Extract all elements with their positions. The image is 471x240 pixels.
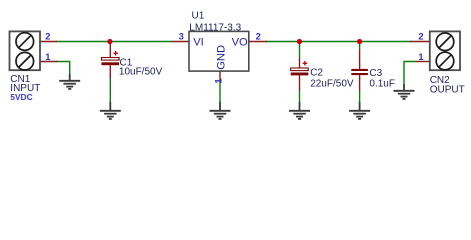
svg-text:2: 2 xyxy=(418,31,423,42)
pin stub CN2 pin1 xyxy=(416,61,430,63)
capacitor C2 22uF/50V xyxy=(291,68,309,71)
svg-text:3: 3 xyxy=(179,31,184,42)
svg-text:OUPUT: OUPUT xyxy=(430,85,465,96)
connector CN2 terminal block xyxy=(430,31,460,70)
pin stub CN1 pin1 xyxy=(40,61,57,63)
pin stub U1 pin1 xyxy=(219,71,221,80)
pin stub CN1 pin2 xyxy=(40,41,57,43)
wire C2 bottom to ground xyxy=(299,90,301,103)
lead C3 bottom xyxy=(359,75,361,91)
ground under U1 xyxy=(210,102,231,119)
svg-text:10uF/50V: 10uF/50V xyxy=(119,67,163,78)
wire U1 GND to ground xyxy=(219,80,221,104)
svg-text:1: 1 xyxy=(418,51,423,62)
svg-text:U1: U1 xyxy=(192,11,205,22)
junction node at C2 xyxy=(297,39,302,44)
wire C2 top xyxy=(299,42,301,59)
wire CN1.1 to ground corner xyxy=(56,62,70,76)
wire C3 top xyxy=(359,42,361,51)
svg-text:GND: GND xyxy=(215,45,227,70)
junction node at C1 xyxy=(107,39,112,44)
pin stub U1 pin3 xyxy=(172,41,189,43)
wire output rail U1.VO to CN2.2 xyxy=(266,41,411,43)
svg-text:C3: C3 xyxy=(369,68,382,79)
svg-text:LM1117-3.3: LM1117-3.3 xyxy=(189,23,241,34)
ground under C3 xyxy=(349,102,370,119)
ground under CN2 xyxy=(394,84,415,99)
svg-text:22uF/50V: 22uF/50V xyxy=(310,78,354,89)
lead C2 bottom xyxy=(299,75,301,90)
lead C1 bottom xyxy=(109,65,111,78)
ground under C1 xyxy=(100,102,121,119)
wire C1 bottom to ground xyxy=(109,78,111,103)
connector CN1 terminal block xyxy=(10,31,41,70)
svg-text:1: 1 xyxy=(212,78,223,83)
capacitor C3 0.1uF xyxy=(351,69,368,71)
wire C3 bottom to ground xyxy=(359,90,361,103)
wire input rail CN1.2 to U1.VI xyxy=(56,41,172,43)
svg-text:0.1uF: 0.1uF xyxy=(369,78,395,89)
svg-text:C2: C2 xyxy=(310,67,323,78)
ground under C2 xyxy=(289,102,310,119)
lead C1 top xyxy=(109,43,111,58)
wire CN2.1 to ground corner xyxy=(404,62,417,86)
svg-text:1: 1 xyxy=(45,51,50,62)
junction node at C3 xyxy=(357,39,362,44)
pin stub U1 pin2 xyxy=(249,41,267,43)
lead C3 top xyxy=(359,50,361,70)
pin stub CN2 pin2 xyxy=(410,41,430,43)
capacitor C1 10uF/50V xyxy=(102,58,120,61)
svg-text:2: 2 xyxy=(45,30,50,41)
lead C2 top xyxy=(299,58,301,69)
svg-text:VI: VI xyxy=(193,36,204,48)
svg-text:5VDC: 5VDC xyxy=(10,92,32,102)
svg-text:2: 2 xyxy=(256,31,261,42)
ground under CN1 xyxy=(59,74,80,89)
regulator U1 LM1117-3.3 body xyxy=(189,31,249,71)
svg-text:VO: VO xyxy=(232,36,248,48)
